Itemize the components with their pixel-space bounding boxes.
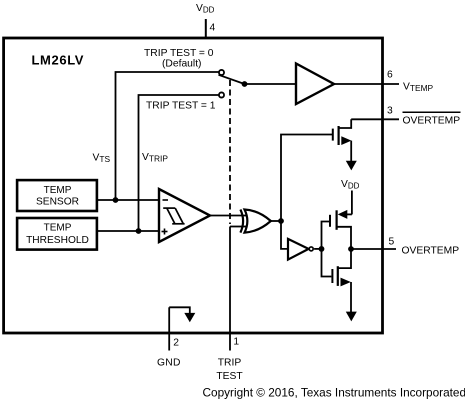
svg-text:TEST: TEST (216, 371, 243, 382)
transistor Q2 (PMOS pull-up) (322, 210, 352, 249)
comparator U1 with hysteresis (159, 189, 210, 242)
ground arrow (Q1 source) (346, 161, 357, 171)
wire TRIP TEST vertical (pin 1 net) (229, 227, 231, 351)
pin 3 wire (351, 118, 399, 120)
switch SW1 contact 1 (open circle) (219, 92, 224, 97)
buffer A1 (296, 64, 334, 105)
svg-text:3: 3 (387, 106, 393, 117)
svg-text:TRIP: TRIP (218, 357, 242, 368)
svg-text:(Default): (Default) (162, 58, 201, 69)
svg-text:VDD: VDD (341, 179, 360, 191)
svg-text:5: 5 (389, 237, 395, 248)
switch SW1 pole junction dot (242, 81, 248, 87)
svg-text:TRIP TEST = 1: TRIP TEST = 1 (146, 101, 216, 112)
svg-text:TEMP: TEMP (44, 222, 72, 233)
inverter U3 (281, 221, 322, 260)
svg-text:TEMP: TEMP (44, 185, 72, 196)
svg-text:OVERTEMP: OVERTEMP (402, 246, 460, 257)
ground arrow (Q3 source) (346, 312, 357, 322)
svg-text:2: 2 (173, 338, 179, 349)
svg-text:4: 4 (210, 23, 216, 34)
wire comparator output to XOR upper input (210, 215, 246, 217)
svg-text:LM26LV: LM26LV (32, 53, 85, 68)
svg-text:VDD: VDD (196, 3, 215, 15)
wire VTS: switch contact 0 to temp sensor node (116, 72, 219, 200)
IC boundary box (4, 38, 383, 333)
dashed control line from switch to TRIP TEST net (229, 80, 231, 224)
wire VTRIP: switch contact 1 to temp threshold node (139, 95, 219, 231)
svg-text:VTS: VTS (93, 153, 111, 165)
wire TEMP THRESHOLD output to comparator + input (98, 230, 160, 232)
pin 4 VDD wire (205, 19, 207, 38)
svg-text:Copyright © 2016, Texas Instru: Copyright © 2016, Texas Instruments Inco… (203, 385, 465, 399)
pin 2 GND wire (168, 307, 170, 350)
pin 6 wire (334, 83, 399, 85)
node inverter output junction dot (319, 246, 325, 252)
wire XOR lower input stub (230, 226, 246, 228)
wire XOR output to node (271, 220, 282, 222)
transistor Q3 (NMOS pull-down) (322, 249, 352, 312)
wire VDD to Q2 source (351, 191, 353, 215)
svg-text:GND: GND (157, 357, 181, 368)
block TEMP THRESHOLD (17, 218, 97, 250)
pin 5 wire (351, 248, 396, 250)
node VTRIP junction dot (136, 228, 142, 234)
svg-text:6: 6 (387, 70, 393, 81)
node XOR output junction dot (278, 218, 284, 224)
svg-text:1: 1 (233, 337, 239, 348)
switch SW1 contact 0 (open circle) (219, 70, 224, 75)
wire switch pole to buffer input (245, 83, 297, 85)
node VTS junction dot (113, 197, 119, 203)
svg-text:VTEMP: VTEMP (403, 82, 434, 94)
switch SW1 arm (219, 75, 245, 84)
ground symbol (internal) (169, 307, 195, 322)
block TEMP SENSOR (17, 180, 97, 211)
wire node up to Q1 gate (281, 135, 332, 222)
transistor Q1 (open-drain NMOS, pin 3) (333, 119, 352, 161)
wire TEMP SENSOR output to comparator - input (98, 199, 160, 201)
hysteresis glyph (163, 207, 175, 209)
XOR gate U2 (240, 210, 270, 233)
svg-text:VTRIP: VTRIP (142, 152, 168, 164)
svg-text:SENSOR: SENSOR (36, 196, 79, 207)
node pin5 junction dot (348, 246, 354, 252)
svg-text:THRESHOLD: THRESHOLD (26, 235, 89, 246)
svg-text:OVERTEMP: OVERTEMP (403, 116, 461, 127)
